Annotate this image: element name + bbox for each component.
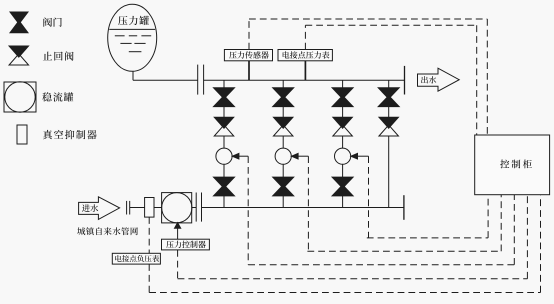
vacuum gauge label box 电接点负压表 [112,253,160,264]
dashed wire sensor1 down to cabinet [486,19,488,135]
dashed wire pump P3 across [367,237,488,239]
legend label 稳流罐 [42,92,73,101]
control cabinet label 控制柜 [500,160,532,169]
top pipe end tick [404,66,406,95]
wire [223,164,225,177]
dashed wire pump P3 up to cabinet [487,195,489,238]
steady flow tank [162,193,192,223]
pressure tank ellipse [108,4,157,71]
legend label 止回阀 [43,51,74,60]
dashed wire pump P2 down [307,156,309,251]
wire to bottom pipe [342,196,344,208]
pump P1 control arrowhead [232,153,239,159]
valve V3a [332,88,353,107]
dashed wire vacuum gauge up to cabinet [540,195,542,293]
legend label 真空抑制器 [43,130,97,139]
water level dashes row2 [120,42,145,44]
pump P1 control stub [239,155,248,157]
legend steady-flow-tank symbol [4,82,36,112]
pump P2 control stub [298,155,308,157]
branch 1 stub from top pipe [223,80,225,88]
outlet arrow 出水 [418,68,460,91]
wire sensor1 to pipe [248,61,250,81]
top pipe flexible joint [198,65,204,95]
contact pressure gauge label box 电接点压力表 [278,50,332,61]
water level dashes row3 [129,51,142,53]
dashed wire pump P1 across [248,264,514,266]
dashed wire sensor1 up [248,19,250,50]
dashed wire pump P2 up to cabinet [500,195,502,252]
tank outlet flexible joint [196,193,201,222]
wire [154,207,162,209]
control cabinet box [475,135,550,195]
pump P2 [275,148,291,164]
dashed wire vacuum gauge across [149,292,540,294]
legend valve symbol [10,12,28,33]
inlet arrow label 进水 [82,204,98,212]
pressure tank label 压力罐 [118,16,149,25]
check valve CV2 [273,117,293,136]
check valve CV3 [333,117,353,136]
dashed wire vacuum gauge below box [148,264,150,292]
pump P3 control arrowhead [351,153,358,159]
check valve CV1 [214,117,234,136]
inlet flexible joint [127,201,130,215]
valve V2b [273,177,294,196]
wire [342,164,344,177]
dashed wire pump P1 up to cabinet [513,195,515,265]
wire [282,107,284,118]
inlet arrow 进水 [79,197,120,220]
bottom pipe main segment [202,207,404,209]
dashed wire controller up to cabinet [526,195,528,279]
dashed wire pump P1 down [247,156,249,265]
dashed wire controller down [177,250,179,279]
legend vacuum-suppressor symbol [17,125,27,144]
dashed wire pump P3 down [368,156,370,238]
outlet arrow label 出水 [421,76,436,83]
dashed wire pump P2 across [307,250,501,252]
pressure controller arrow stem [177,228,179,239]
valve V2a [273,88,294,107]
pump P2 control arrowhead [292,153,299,159]
wire to bottom pipe [282,196,284,208]
dashed wire sensor2 down to cabinet [476,25,478,135]
dashed wire sensor2 up [304,25,306,49]
pump P3 control stub [358,155,369,157]
wire sensor2 to pipe [304,61,306,81]
branch 4 bypass wire to bottom pipe [388,136,390,208]
water level dashes row1 [115,35,151,37]
pump P3 [335,148,351,164]
dashed wire vacuum gauge from suppressor [148,217,150,253]
label 城镇自来水管网 [77,227,138,235]
legend label 阀门 [43,17,61,26]
wire [342,136,344,148]
branch 2 stub from top pipe [282,80,284,88]
pressure controller arrowhead [175,223,181,229]
valve V1a [214,88,235,107]
legend check-valve symbol [9,46,29,65]
wire [192,207,197,209]
wire [388,107,390,118]
top pipe left segment [133,79,198,81]
vacuum suppressor [145,198,154,218]
wire [223,107,225,118]
valve V4a [378,88,399,107]
valve V3b [332,177,353,196]
check valve CV4 [379,117,399,136]
top pipe main segment [204,79,405,81]
pressure sensor label box 压力传感器 [224,50,272,61]
pressure tank chord line [109,28,155,30]
pressure controller label box 压力控制器 [162,239,210,250]
dashed wire sensor2 top run [305,24,476,26]
valve V1b [214,177,235,196]
wire [342,107,344,118]
pump P1 [216,148,232,164]
tank outlet drop wire [132,71,134,80]
wire [282,136,284,148]
wire [282,164,284,177]
branch 4 stub from top pipe [388,80,390,88]
dashed wire controller across [178,278,528,280]
wire [223,136,225,148]
wire [130,207,145,209]
dashed wire sensor1 top run [249,18,487,20]
bottom pipe end tick [403,195,405,220]
branch 3 stub from top pipe [342,80,344,88]
wire to bottom pipe [223,196,225,208]
